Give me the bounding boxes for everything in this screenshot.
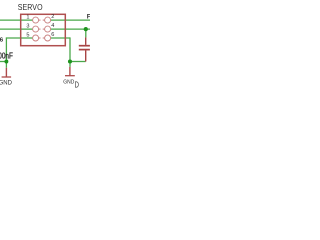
svg-text:GND: GND [63, 79, 74, 85]
svg-text:GND: GND [0, 80, 13, 86]
svg-text:D: D [75, 81, 79, 90]
svg-text:F: F [87, 14, 90, 21]
svg-text:SERVO: SERVO [18, 2, 43, 12]
svg-text:00nF: 00nF [0, 51, 13, 61]
svg-text:5: 5 [26, 32, 29, 38]
svg-text:2: 2 [51, 14, 54, 20]
svg-text:6: 6 [51, 32, 54, 38]
svg-text:1: 1 [26, 14, 29, 20]
svg-text:4: 4 [51, 23, 54, 29]
svg-text:3: 3 [26, 23, 29, 29]
